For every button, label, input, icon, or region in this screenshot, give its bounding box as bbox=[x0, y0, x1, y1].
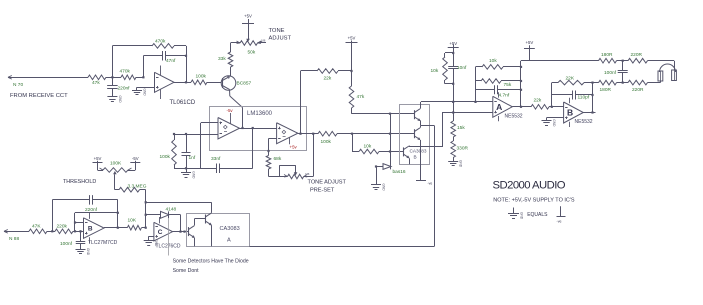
svg-text:15k: 15k bbox=[457, 125, 465, 131]
label 180R top bbox=[601, 52, 613, 58]
label 3.3 MEG bbox=[128, 184, 147, 190]
wire Q1 emitter down bbox=[194, 238, 196, 247]
label +5v OTA B bbox=[290, 145, 298, 150]
svg-text:Some Dont: Some Dont bbox=[173, 268, 200, 274]
svg-text:10nf: 10nf bbox=[457, 65, 467, 71]
wire 47k to T1 base bbox=[352, 113, 415, 115]
resistor 10K det bbox=[118, 225, 146, 230]
wire plus-input drop bbox=[200, 123, 202, 169]
pin speck preset right bbox=[304, 172, 311, 177]
resistor 22k fb B bbox=[552, 80, 593, 85]
resistor 47K detector bbox=[27, 229, 52, 234]
label 100k mid bbox=[321, 139, 332, 145]
label 220R bottom bbox=[632, 87, 644, 93]
junction fb right A3 bbox=[520, 89, 522, 91]
label 22k bias bbox=[324, 76, 332, 82]
svg-text:GND: GND bbox=[143, 89, 147, 97]
capacitor 100nf det bbox=[76, 231, 86, 249]
svg-text:470k: 470k bbox=[155, 39, 166, 45]
label 100nf det bbox=[60, 241, 73, 247]
wire T2 collector out bbox=[421, 126, 435, 128]
svg-text:220k: 220k bbox=[57, 224, 68, 230]
power +5V divider bbox=[448, 41, 459, 48]
svg-text:330R: 330R bbox=[457, 146, 469, 152]
junction T1 base wire bbox=[389, 113, 391, 115]
svg-text:B: B bbox=[88, 225, 93, 232]
svg-text:Some Detectors Have The Diode: Some Detectors Have The Diode bbox=[173, 258, 249, 264]
pin stub U5C top bbox=[159, 217, 161, 223]
wire to left earpiece bbox=[648, 81, 661, 83]
potentiometer 100K THRESHOLD bbox=[98, 163, 136, 172]
label 22K fb B bbox=[566, 76, 575, 82]
wire U4B output bbox=[583, 112, 595, 114]
junction mid node bbox=[351, 133, 353, 135]
capacitor 47nf feedback bbox=[143, 51, 186, 61]
wire 22k bias branch bbox=[301, 71, 317, 134]
junction 1nf top bbox=[185, 133, 187, 135]
wire diode to output bbox=[180, 215, 182, 232]
wire T3 emitter stub bbox=[409, 158, 411, 164]
svg-text:PRE-SET: PRE-SET bbox=[310, 187, 335, 193]
junction rail1 crossing bbox=[452, 101, 454, 103]
node N 88 input terminal bbox=[4, 230, 27, 234]
label 100k bias bbox=[160, 154, 171, 160]
svg-text:SD2000 AUDIO: SD2000 AUDIO bbox=[493, 179, 566, 191]
wire 33nf to OTA A output bbox=[252, 128, 254, 168]
svg-text:3.3 MEG: 3.3 MEG bbox=[128, 184, 147, 190]
junction U1 output feedback bbox=[185, 81, 187, 83]
svg-text:68k: 68k bbox=[274, 156, 282, 162]
junction 100nf det bbox=[79, 230, 81, 232]
IC U2 LM13600 box bbox=[210, 107, 307, 151]
junction fb left A bbox=[474, 101, 476, 103]
transistor U6 Q2 bbox=[206, 213, 212, 225]
svg-text:NE5532: NE5532 bbox=[505, 114, 523, 120]
diode D1 4148 bbox=[146, 211, 181, 218]
pin stub U5B top bbox=[89, 213, 91, 219]
node N 70 input terminal bbox=[8, 76, 86, 80]
svg-text:NE5532: NE5532 bbox=[575, 119, 593, 125]
svg-text:10k: 10k bbox=[431, 68, 439, 74]
junction diode anode bbox=[375, 165, 377, 167]
junction feedback node bbox=[142, 76, 144, 78]
svg-text:220R: 220R bbox=[632, 87, 644, 93]
svg-text:180R: 180R bbox=[600, 87, 612, 93]
wire bottom rail bbox=[249, 246, 434, 248]
power +5V bias bbox=[346, 36, 358, 44]
headphone jack bbox=[658, 64, 676, 81]
svg-text:+5v: +5v bbox=[290, 145, 298, 150]
label 220R top bbox=[631, 52, 643, 58]
op-amp U5B TLC27M7CD bbox=[84, 218, 105, 239]
ground 1nf node bbox=[181, 168, 196, 179]
wire x390 vertical bbox=[390, 114, 392, 167]
svg-text:-5v: -5v bbox=[227, 108, 234, 113]
capacitor 110pf fb B bbox=[552, 91, 593, 100]
pin stub OTA A supply bbox=[230, 113, 232, 124]
wiper preset link bbox=[279, 165, 297, 176]
callout line bbox=[168, 218, 170, 255]
wire long collector rail bbox=[434, 126, 436, 247]
label 110pf bbox=[578, 94, 590, 100]
junction diode line bbox=[145, 214, 147, 216]
wire U1 output bbox=[174, 82, 191, 84]
junction fb top B bbox=[591, 82, 593, 84]
svg-text:33k: 33k bbox=[218, 56, 226, 62]
svg-text:CA3083: CA3083 bbox=[410, 149, 427, 154]
svg-text:B: B bbox=[414, 155, 417, 160]
resistor 10k bbox=[352, 149, 404, 154]
svg-text:NOTE: +5V,-5V SUPPLY TO IC'S: NOTE: +5V,-5V SUPPLY TO IC'S bbox=[493, 197, 575, 203]
resistor 33k bbox=[228, 49, 233, 71]
ground U4B plus bbox=[542, 119, 557, 127]
pin stub U4B top bbox=[569, 98, 571, 104]
wire U5C output bbox=[173, 231, 189, 233]
junction 220k out bbox=[74, 230, 76, 232]
label 10k fb A bbox=[489, 58, 497, 64]
svg-text:100nf: 100nf bbox=[60, 241, 73, 247]
label N 70 bbox=[13, 82, 23, 88]
wire T2 emitter down bbox=[420, 140, 423, 181]
wire OTA B output bbox=[298, 133, 318, 135]
wire mid to T2 base bbox=[352, 133, 415, 135]
capacitor 4.7nf fb A bbox=[476, 85, 522, 94]
label 470k feedback bbox=[155, 39, 166, 45]
svg-text:A: A bbox=[496, 102, 502, 112]
resistor 22k bias bbox=[316, 69, 352, 74]
resistor 10k fb A bbox=[476, 65, 522, 70]
supply -ve under box bbox=[416, 181, 432, 186]
wire Q2 collector up bbox=[146, 202, 212, 213]
capacitor 220nf fb bbox=[52, 195, 118, 205]
resistor 47k bbox=[86, 75, 112, 80]
svg-text:+5V: +5V bbox=[244, 14, 252, 19]
svg-text:4.7nf: 4.7nf bbox=[499, 93, 510, 99]
op-amp U5C bbox=[154, 222, 173, 241]
svg-text:22k: 22k bbox=[324, 76, 332, 82]
label 33nf bbox=[211, 156, 221, 162]
junction rail2 divider bbox=[452, 111, 454, 113]
junction input node bbox=[111, 76, 113, 78]
pin stub U5B bottom bbox=[89, 237, 91, 243]
label NE5532 B bbox=[575, 119, 593, 125]
label 220k detector bbox=[57, 224, 68, 230]
svg-text:180R: 180R bbox=[601, 52, 613, 58]
ground 100nf det bbox=[76, 248, 91, 256]
resistor 470k series bbox=[112, 75, 143, 80]
junction 100k/1nf top left bbox=[173, 133, 175, 135]
wire Q1 collector up bbox=[194, 219, 206, 226]
svg-text:+5V: +5V bbox=[94, 156, 102, 161]
svg-text:bas16: bas16 bbox=[393, 169, 406, 175]
wire minus stub bbox=[75, 222, 84, 224]
IC U6 CA3083 A box bbox=[187, 214, 250, 247]
transistor U3 T1 bbox=[415, 109, 421, 121]
svg-text:B: B bbox=[567, 108, 573, 118]
svg-text:C: C bbox=[158, 229, 163, 236]
wire fb left rail B bbox=[551, 83, 553, 107]
note supply bbox=[493, 197, 575, 203]
svg-text:+5V: +5V bbox=[526, 40, 534, 45]
wire T1 collector to rail1 bbox=[421, 102, 493, 109]
junction collector line bbox=[145, 201, 147, 203]
svg-text:GND: GND bbox=[192, 171, 196, 179]
transistor U3 T2 bbox=[415, 128, 421, 140]
op-amp U2A OTA bbox=[218, 118, 240, 140]
wire fb right rail A bbox=[520, 61, 522, 107]
junction fb right A1 bbox=[520, 66, 522, 68]
op-amp U4B NE5532 bbox=[564, 102, 584, 123]
svg-text:BC857: BC857 bbox=[237, 81, 252, 87]
svg-text:A: A bbox=[227, 237, 231, 243]
junction BC857 collector feed bbox=[241, 127, 243, 129]
legend -ve symbol bbox=[557, 206, 566, 223]
wire fb left rail A bbox=[475, 67, 477, 102]
wire fb inner branch bbox=[75, 213, 118, 232]
label 47K detector bbox=[32, 224, 41, 230]
wire U1 plus input to ground bbox=[137, 87, 155, 89]
potentiometer 22k preset bbox=[284, 174, 307, 179]
label 10nf bbox=[457, 65, 467, 71]
svg-text:100nf: 100nf bbox=[604, 70, 617, 76]
label 75k fb A bbox=[504, 82, 512, 88]
power +5V threshold bbox=[93, 156, 103, 163]
svg-text:TL061CD: TL061CD bbox=[170, 100, 196, 106]
resistor 3.3 MEG bbox=[115, 187, 146, 192]
svg-text:4148: 4148 bbox=[166, 207, 177, 213]
capacitor 100nf output bbox=[618, 61, 628, 83]
label N 88 bbox=[9, 236, 19, 242]
junction bias rail bbox=[185, 167, 187, 169]
svg-text:EQUALS: EQUALS bbox=[527, 212, 548, 218]
svg-text:TONE ADJUST: TONE ADJUST bbox=[308, 180, 347, 186]
junction fb right B bbox=[591, 94, 593, 96]
pin speck 50k right bbox=[259, 39, 266, 43]
label TL061CD bbox=[170, 100, 196, 106]
resistor 100k mid bbox=[318, 131, 352, 136]
wire fb drop to output bbox=[117, 200, 119, 228]
wire Q1 collector bbox=[230, 89, 243, 128]
label 220nf fb bbox=[85, 207, 98, 213]
wire feedback upper branch bbox=[112, 46, 150, 78]
junction 68k top on box edge bbox=[267, 150, 269, 152]
label 330R bbox=[457, 146, 469, 152]
wire bias bottom rail bbox=[174, 168, 213, 170]
junction U4B output bbox=[591, 111, 593, 113]
junction 10k right bbox=[389, 150, 391, 152]
label 68k bbox=[274, 156, 282, 162]
label CA3083 A bbox=[220, 226, 240, 243]
svg-text:110pf: 110pf bbox=[578, 94, 590, 100]
wire bottom output rail bbox=[593, 82, 598, 84]
svg-text:100k: 100k bbox=[321, 139, 332, 145]
label TONE ADJUST bbox=[269, 28, 292, 42]
junction x390 crossing bbox=[389, 133, 391, 135]
svg-text:10K: 10K bbox=[128, 218, 137, 224]
label TLC27M7CD bbox=[88, 240, 118, 246]
label 47nf bbox=[166, 58, 176, 64]
junction minus node C bbox=[145, 227, 147, 229]
svg-text:75k: 75k bbox=[504, 82, 512, 88]
label 4148 bbox=[166, 207, 177, 213]
junction preset feedback bbox=[312, 133, 314, 135]
wire +5V stem bbox=[453, 47, 455, 53]
wire feedback cap branch bbox=[143, 56, 145, 78]
wire OTA A output bbox=[240, 128, 277, 130]
label 4.7nf bbox=[499, 93, 510, 99]
wire T3 collector to rail2 bbox=[410, 113, 493, 148]
svg-text:THRESHOLD: THRESHOLD bbox=[63, 179, 96, 185]
label THRESHOLD bbox=[63, 179, 96, 185]
resistor 220k detector bbox=[52, 229, 75, 234]
junction fb right A2 bbox=[520, 80, 522, 82]
svg-text:100k: 100k bbox=[196, 74, 207, 80]
ground under 220nf bbox=[107, 95, 122, 103]
resistor 22k series bbox=[521, 105, 564, 110]
IC U3 CA3083 box bbox=[400, 105, 430, 165]
junction U5B out fb bbox=[117, 227, 119, 229]
label BC857 bbox=[237, 81, 252, 87]
label Some Detectors Have The Diode bbox=[173, 258, 249, 264]
svg-text:47k: 47k bbox=[92, 80, 100, 86]
junction OTA A output bbox=[252, 127, 254, 129]
title SD2000 AUDIO bbox=[493, 179, 566, 191]
label 1nf bbox=[189, 155, 196, 161]
junction 22k drop bbox=[299, 133, 301, 135]
label TONE ADJUST PRE-SET bbox=[308, 180, 347, 194]
op-amp U2B OTA bbox=[277, 123, 298, 144]
junction cap-to-resistor rail bbox=[185, 55, 187, 57]
junction 100nf bottom bbox=[622, 82, 624, 84]
svg-text:GND: GND bbox=[520, 212, 524, 220]
resistor 100k base bbox=[186, 80, 221, 85]
capacitor 33nf bbox=[201, 164, 253, 174]
junction 100nf top bbox=[622, 60, 624, 62]
svg-text:+5V: +5V bbox=[348, 36, 356, 41]
label -5v OTA A bbox=[227, 108, 234, 113]
wire minus node rail up bbox=[145, 190, 147, 228]
wire Q2 emitter down bbox=[211, 225, 213, 246]
svg-text:GND: GND bbox=[552, 119, 556, 127]
label 15k bbox=[457, 125, 465, 131]
resistor 47k bias bbox=[349, 71, 354, 114]
wiper threshold bbox=[113, 171, 117, 190]
svg-text:22K: 22K bbox=[566, 76, 575, 82]
svg-text:22k: 22k bbox=[534, 98, 542, 104]
junction divider top bbox=[452, 52, 454, 54]
wire OTA A minus input bbox=[174, 134, 218, 136]
wire U5B output bbox=[104, 227, 127, 230]
wire to right earpiece bbox=[648, 61, 675, 71]
svg-text:FROM RECEIVE CCT: FROM RECEIVE CCT bbox=[10, 93, 68, 99]
svg-text:10k: 10k bbox=[364, 144, 372, 150]
svg-text:N 70: N 70 bbox=[13, 82, 23, 88]
svg-text:188: 188 bbox=[305, 172, 310, 176]
transistor U3 T3 bbox=[404, 146, 410, 158]
wire divider to rails bbox=[453, 84, 455, 121]
wire feedback right rail bbox=[186, 46, 188, 82]
wire U4A output bbox=[512, 106, 530, 108]
resistor 75k fb A bbox=[476, 79, 522, 84]
label FROM RECEIVE CCT bbox=[10, 93, 68, 99]
junction diode fb bbox=[179, 231, 185, 233]
label 220nf bbox=[118, 85, 131, 91]
svg-text:GND: GND bbox=[118, 96, 122, 104]
pin stub U1 top bbox=[160, 66, 162, 76]
resistor 180R top bbox=[598, 58, 623, 63]
svg-text:LM13600: LM13600 bbox=[247, 111, 273, 117]
label NE5532 A bbox=[505, 114, 523, 120]
svg-text:100K: 100K bbox=[110, 161, 122, 167]
label LM13600 bbox=[247, 111, 273, 117]
wire top output rail bbox=[521, 60, 598, 62]
svg-text:TONE: TONE bbox=[269, 28, 285, 34]
wire 68k to preset bbox=[269, 170, 285, 177]
wire fb right rail B bbox=[592, 83, 594, 113]
power -5V threshold bbox=[130, 156, 140, 163]
wire T1 emitter join bbox=[420, 121, 423, 126]
wire +5V stem A bbox=[529, 48, 531, 61]
svg-text:47K: 47K bbox=[32, 224, 41, 230]
label CA3083 B bbox=[410, 149, 427, 160]
power +5V opamp A bbox=[524, 40, 535, 49]
junction fb mid bbox=[117, 212, 119, 214]
junction minus stub bbox=[74, 221, 76, 223]
svg-text:47nf: 47nf bbox=[166, 58, 176, 64]
wire preset to output bbox=[304, 134, 314, 177]
label 50k bbox=[248, 50, 256, 56]
wire mid drop to 10k bbox=[352, 134, 354, 152]
ground 330R bbox=[448, 159, 463, 168]
resistor 15k bbox=[451, 121, 456, 139]
svg-text:N 88: N 88 bbox=[9, 236, 19, 242]
junction 22k/47k node bbox=[350, 70, 352, 72]
resistor 100k bias bbox=[172, 134, 177, 168]
svg-text:188: 188 bbox=[261, 39, 266, 43]
wire U5C plus to ground bbox=[149, 236, 154, 240]
resistor 470k feedback bbox=[150, 44, 186, 49]
label 10k divider bbox=[431, 68, 439, 74]
diode D2 bas16 bbox=[376, 164, 392, 170]
label 470k series bbox=[120, 69, 131, 75]
label EQUALS bbox=[527, 212, 548, 218]
junction divider bottom bbox=[452, 83, 454, 85]
svg-text:100k: 100k bbox=[160, 154, 171, 160]
label 10k bbox=[364, 144, 372, 150]
svg-text:GND: GND bbox=[382, 184, 386, 192]
label 22k series bbox=[534, 98, 542, 104]
wire OTA B plus input bbox=[269, 139, 277, 155]
svg-text:-ve: -ve bbox=[557, 220, 562, 224]
wire +5V to node bbox=[351, 43, 353, 71]
svg-text:GND: GND bbox=[459, 160, 463, 168]
label 47k bias bbox=[357, 94, 365, 100]
resistor 68k bbox=[266, 155, 271, 171]
label Some Dont bbox=[173, 268, 200, 274]
legend ground symbol bbox=[508, 208, 524, 220]
pin stub OTA B supply bbox=[289, 138, 291, 145]
label 100k base bbox=[196, 74, 207, 80]
svg-text:CA3083: CA3083 bbox=[220, 226, 240, 232]
wire fb 220nf branch bbox=[52, 200, 54, 231]
junction det input bbox=[51, 230, 53, 232]
label bas16 bbox=[393, 169, 406, 175]
svg-text:GND: GND bbox=[154, 239, 158, 247]
svg-text:1nf: 1nf bbox=[189, 155, 196, 161]
resistor 220R top bbox=[623, 58, 660, 63]
wire OTA A plus input bbox=[201, 122, 218, 124]
label 180R bottom bbox=[600, 87, 612, 93]
